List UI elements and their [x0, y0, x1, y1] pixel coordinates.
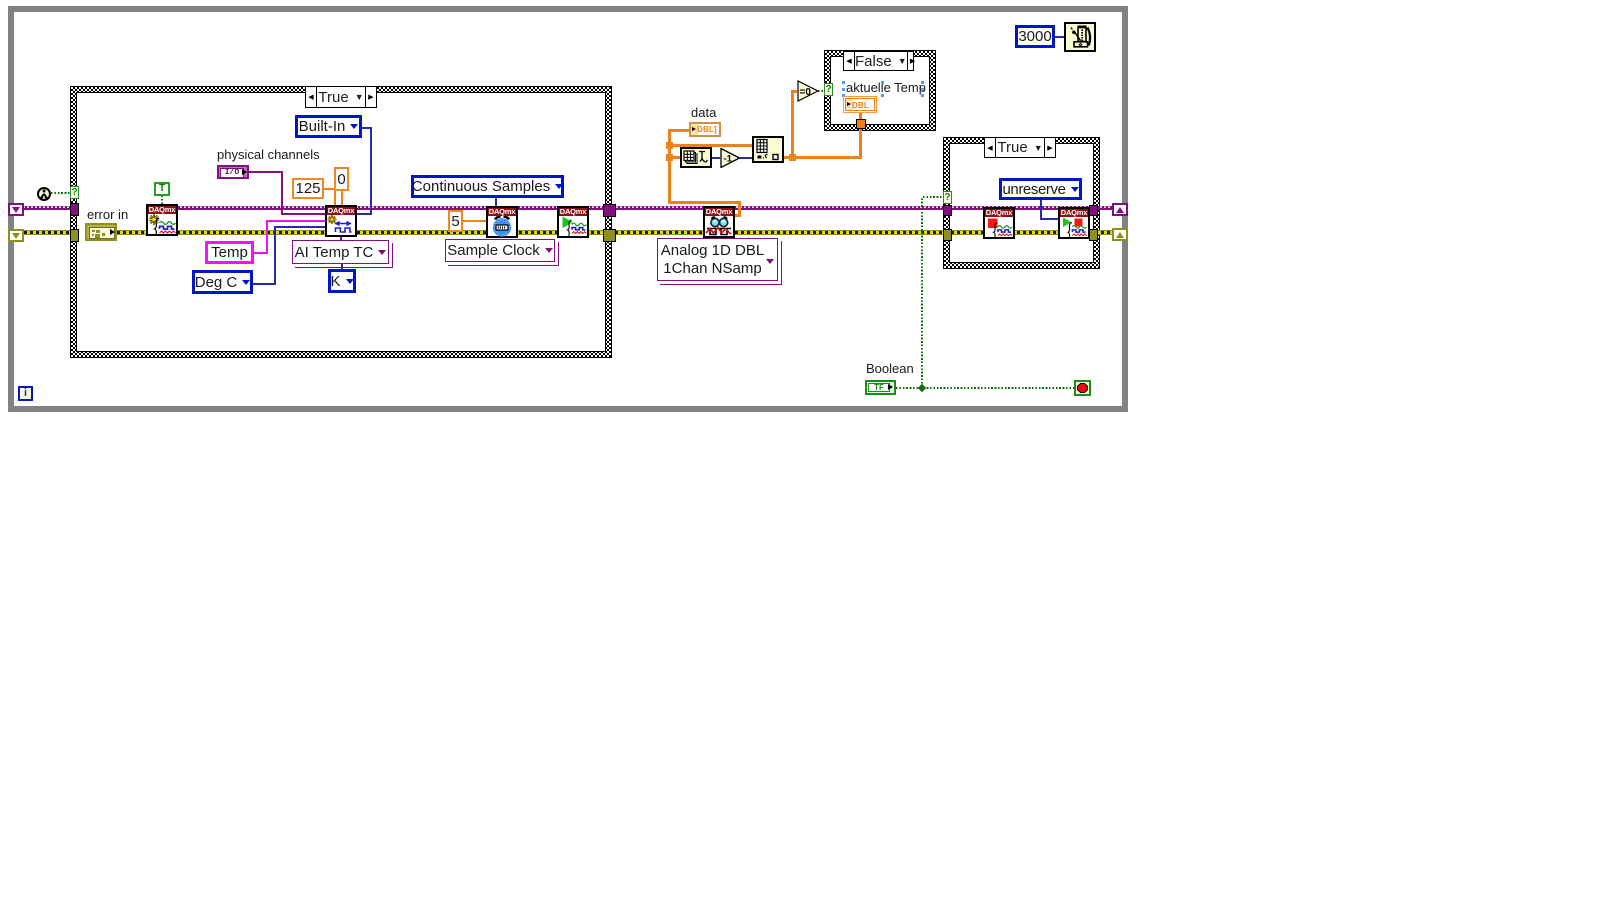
DAQmx stop task VI — [983, 207, 1015, 239]
wire error (error in cluster to right SR) — [117, 230, 1112, 235]
case 1 selector — [305, 86, 377, 108]
constant 125 — [292, 178, 324, 199]
svg-text:=0: =0 — [800, 87, 812, 98]
wire: Deg C blue — [253, 283, 275, 285]
svg-text:-1: -1 — [724, 154, 733, 165]
case structure right (True) — [943, 137, 1100, 269]
aktuelle Temp DBL indicator — [843, 96, 877, 113]
Continuous Samples combo — [411, 175, 564, 198]
constant 5 — [448, 210, 463, 232]
label: data — [691, 105, 716, 120]
3000 constant — [1015, 25, 1055, 48]
K combo — [328, 269, 356, 293]
DAQmx read VI — [703, 206, 735, 238]
wire: 5 orange — [463, 220, 486, 222]
wire: Boolean dotted — [896, 387, 1074, 389]
index array function — [752, 136, 784, 163]
wire: index array out — [784, 156, 862, 159]
case selector terminal ? (right True case) — [943, 191, 952, 204]
shift register right (error wire) — [1112, 228, 1128, 241]
I/O control — [217, 165, 249, 179]
DAQmx timing VI — [486, 206, 518, 238]
array size function — [680, 147, 712, 168]
shift register left (error wire) — [8, 229, 24, 242]
svg defs — [0, 0, 1, 1]
junction boolean — [918, 384, 926, 392]
decrement function — [720, 148, 740, 168]
wire: clock to ? dotted — [51, 192, 70, 194]
tunnel task wire (case 1 left) — [70, 203, 79, 216]
tunnel error wire (right case right) — [1089, 229, 1098, 241]
Sample Clock ring — [448, 242, 559, 266]
constant 0 — [334, 167, 349, 191]
wire: =0 to ? dotted — [818, 90, 824, 92]
stop button — [1074, 380, 1091, 396]
wire: Built-In blue — [362, 127, 372, 129]
tunnel error wire (case 1 right) — [603, 229, 616, 242]
wire: decrement out — [740, 157, 752, 159]
shift register left (task wire) — [8, 203, 24, 216]
shift register right (task wire) — [1112, 203, 1128, 216]
tunnel task wire (right case right) — [1089, 205, 1098, 216]
tunnel data wire (False case bottom) — [856, 119, 866, 129]
wire: Continuous Samples blue — [495, 198, 497, 206]
first call clock icon — [36, 186, 52, 202]
tunnel error wire (case 1 left) — [70, 229, 79, 242]
wire: Temp pink — [254, 252, 268, 254]
wire: T constant dotted — [161, 195, 163, 204]
wire task (create task to right SR) — [177, 206, 1112, 210]
equals zero function — [797, 80, 819, 102]
case structure False — [824, 50, 936, 131]
case selector terminal ? (case 1) — [70, 186, 79, 199]
wire: 125 orange — [324, 188, 336, 190]
while loop — [8, 6, 1128, 412]
wire: 3000 to wait — [1055, 36, 1064, 38]
wire: array size out — [712, 157, 720, 159]
tunnel task wire (right case left) — [943, 205, 952, 216]
junction dots — [666, 142, 673, 149]
Analog 1D DBL ring — [660, 241, 782, 285]
wire task (left SR to case tunnel) — [24, 206, 70, 210]
unreserve combo — [999, 178, 1082, 200]
Built-In combo — [295, 115, 362, 138]
DAQmx control task VI — [1058, 207, 1090, 239]
wire: AI Temp TC stub — [340, 237, 342, 240]
case selector terminal ? (False case) — [824, 83, 833, 96]
boolean T constant — [154, 182, 170, 196]
iteration terminal i — [18, 386, 33, 401]
AI Temp TC ring — [295, 243, 393, 268]
DAQmx create virtual channel VI — [325, 205, 357, 237]
label: Boolean — [866, 361, 914, 376]
wire: unreserve blue — [1040, 200, 1042, 220]
wire: physical channels violet — [249, 171, 283, 173]
DAQmx create task VI — [146, 204, 178, 236]
wait until next ms multiple — [1064, 22, 1096, 52]
tunnel task wire (case 1 right) — [603, 204, 616, 217]
data [DBL] indicator — [689, 122, 721, 137]
wire: data orange runs — [668, 130, 671, 204]
tunnel error wire (right case left) — [943, 229, 952, 241]
wire: 0 orange — [341, 191, 343, 205]
wire error (left SR to case tunnel) — [24, 230, 70, 235]
wire: K stub — [341, 264, 343, 269]
label: aktuelle Temp with selection handles — [846, 80, 926, 95]
label: physical channels — [217, 147, 320, 162]
DAQmx start task VI — [557, 206, 589, 238]
TF boolean control — [865, 380, 896, 395]
Deg C combo — [192, 270, 253, 294]
case structure 1 (True) — [70, 86, 612, 358]
Temp constant — [205, 241, 254, 264]
error in cluster — [85, 223, 117, 241]
label: error in — [87, 207, 128, 222]
